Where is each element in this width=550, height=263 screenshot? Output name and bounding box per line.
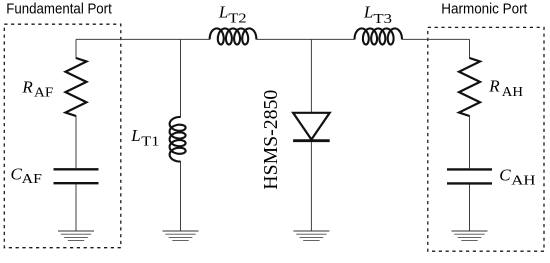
svg-text:Harmonic Port: Harmonic Port <box>441 0 528 17</box>
svg-text:L: L <box>363 3 373 22</box>
svg-text:R: R <box>488 76 500 95</box>
svg-text:Fundamental Port: Fundamental Port <box>6 0 112 17</box>
svg-text:AF: AF <box>22 172 42 187</box>
svg-text:T2: T2 <box>228 12 246 27</box>
svg-text:L: L <box>218 2 228 21</box>
svg-text:L: L <box>130 126 140 145</box>
svg-text:HSMS-2850: HSMS-2850 <box>260 90 282 190</box>
svg-text:R: R <box>21 78 33 97</box>
svg-text:AH: AH <box>502 85 523 100</box>
svg-text:C: C <box>499 165 511 184</box>
svg-text:AH: AH <box>511 174 535 189</box>
svg-text:T3: T3 <box>373 12 392 27</box>
svg-text:C: C <box>11 165 23 184</box>
svg-text:T1: T1 <box>141 135 159 150</box>
svg-text:AF: AF <box>34 85 53 100</box>
